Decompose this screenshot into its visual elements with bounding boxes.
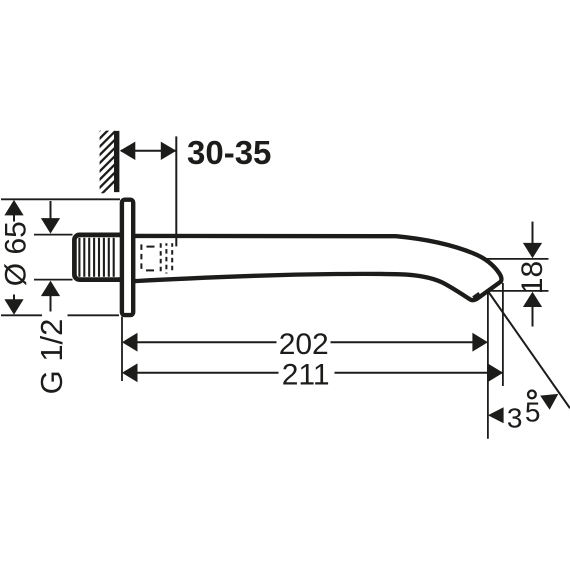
211 dimension xyxy=(122,358,503,391)
202 dimension xyxy=(122,328,488,361)
svg-text:3: 3 xyxy=(507,403,523,434)
211 right arrowhead xyxy=(488,363,504,382)
18 dimension line upper segment xyxy=(532,222,534,245)
escutcheon flange xyxy=(122,200,133,315)
211 dimension line right segment xyxy=(335,372,503,374)
211 dimension line left segment xyxy=(124,372,279,374)
threaded nipple G1/2 body xyxy=(74,235,124,280)
G1/2 dimension line lower segment xyxy=(50,296,52,312)
35deg degree symbol xyxy=(528,391,536,399)
G1/2 bottom arrowhead xyxy=(41,281,60,297)
30-35 extension line xyxy=(175,136,177,246)
dia65 bottom arrowhead xyxy=(4,299,23,315)
35deg right arrowhead xyxy=(540,394,558,410)
35deg left arrowhead xyxy=(488,407,504,423)
left vertical extension below flange xyxy=(121,317,123,381)
30-35 dimension line xyxy=(121,150,176,152)
202 right arrowhead xyxy=(472,333,488,352)
thread top extension line xyxy=(34,234,73,236)
dia65 dimension line upper segment xyxy=(13,215,15,222)
wall hatching xyxy=(96,112,118,200)
flange top extension line xyxy=(1,198,120,200)
svg-text:5: 5 xyxy=(525,396,541,427)
thread bottom extension line xyxy=(34,279,73,281)
outlet vertical extension (202) xyxy=(487,292,489,439)
30-35 left arrowhead xyxy=(120,142,136,160)
dia65 top arrowhead xyxy=(4,200,23,216)
svg-text:30-35: 30-35 xyxy=(187,134,271,171)
18 bottom arrowhead xyxy=(523,292,542,307)
35 degree diagonal line xyxy=(488,292,570,409)
G 1/2 dimension xyxy=(34,201,73,394)
svg-text:211: 211 xyxy=(282,358,330,391)
dia65 dimension line lower segment xyxy=(13,295,15,301)
spout body xyxy=(133,236,501,300)
dia 65 dimension xyxy=(0,200,32,315)
G1/2 dimension line upper segment xyxy=(50,201,52,219)
svg-text:18: 18 xyxy=(516,261,549,294)
202 dimension line left segment xyxy=(124,341,277,343)
svg-text:G 1/2: G 1/2 xyxy=(34,319,69,395)
211 left arrowhead xyxy=(122,363,138,382)
tip vertical extension (211) xyxy=(502,283,504,386)
202 dimension line right segment xyxy=(331,341,487,343)
svg-text:Ø 65: Ø 65 xyxy=(0,221,32,286)
35deg angle label digits xyxy=(507,396,541,433)
202 left arrowhead xyxy=(122,333,138,352)
18 dimension line lower segment xyxy=(532,307,534,327)
18 top arrowhead xyxy=(523,243,542,258)
18 upper extension line xyxy=(485,258,549,260)
thread lines xyxy=(79,238,113,277)
flange bottom extension line xyxy=(1,314,42,316)
wall face line xyxy=(114,131,119,192)
18 dimension xyxy=(485,222,549,327)
30-35 dimension xyxy=(120,134,272,246)
svg-text:202: 202 xyxy=(279,328,329,361)
30-35 right arrowhead xyxy=(161,142,177,160)
G1/2 top arrowhead xyxy=(41,218,60,234)
18 lower extension line xyxy=(488,290,549,292)
hidden thread dashed lines inside spout xyxy=(141,243,172,273)
aerator mark on outlet face xyxy=(472,292,480,299)
